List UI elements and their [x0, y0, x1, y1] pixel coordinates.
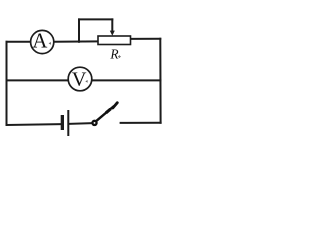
svg-text:R: R — [109, 46, 118, 61]
svg-text:V: V — [72, 68, 87, 90]
svg-text:A: A — [32, 30, 47, 53]
